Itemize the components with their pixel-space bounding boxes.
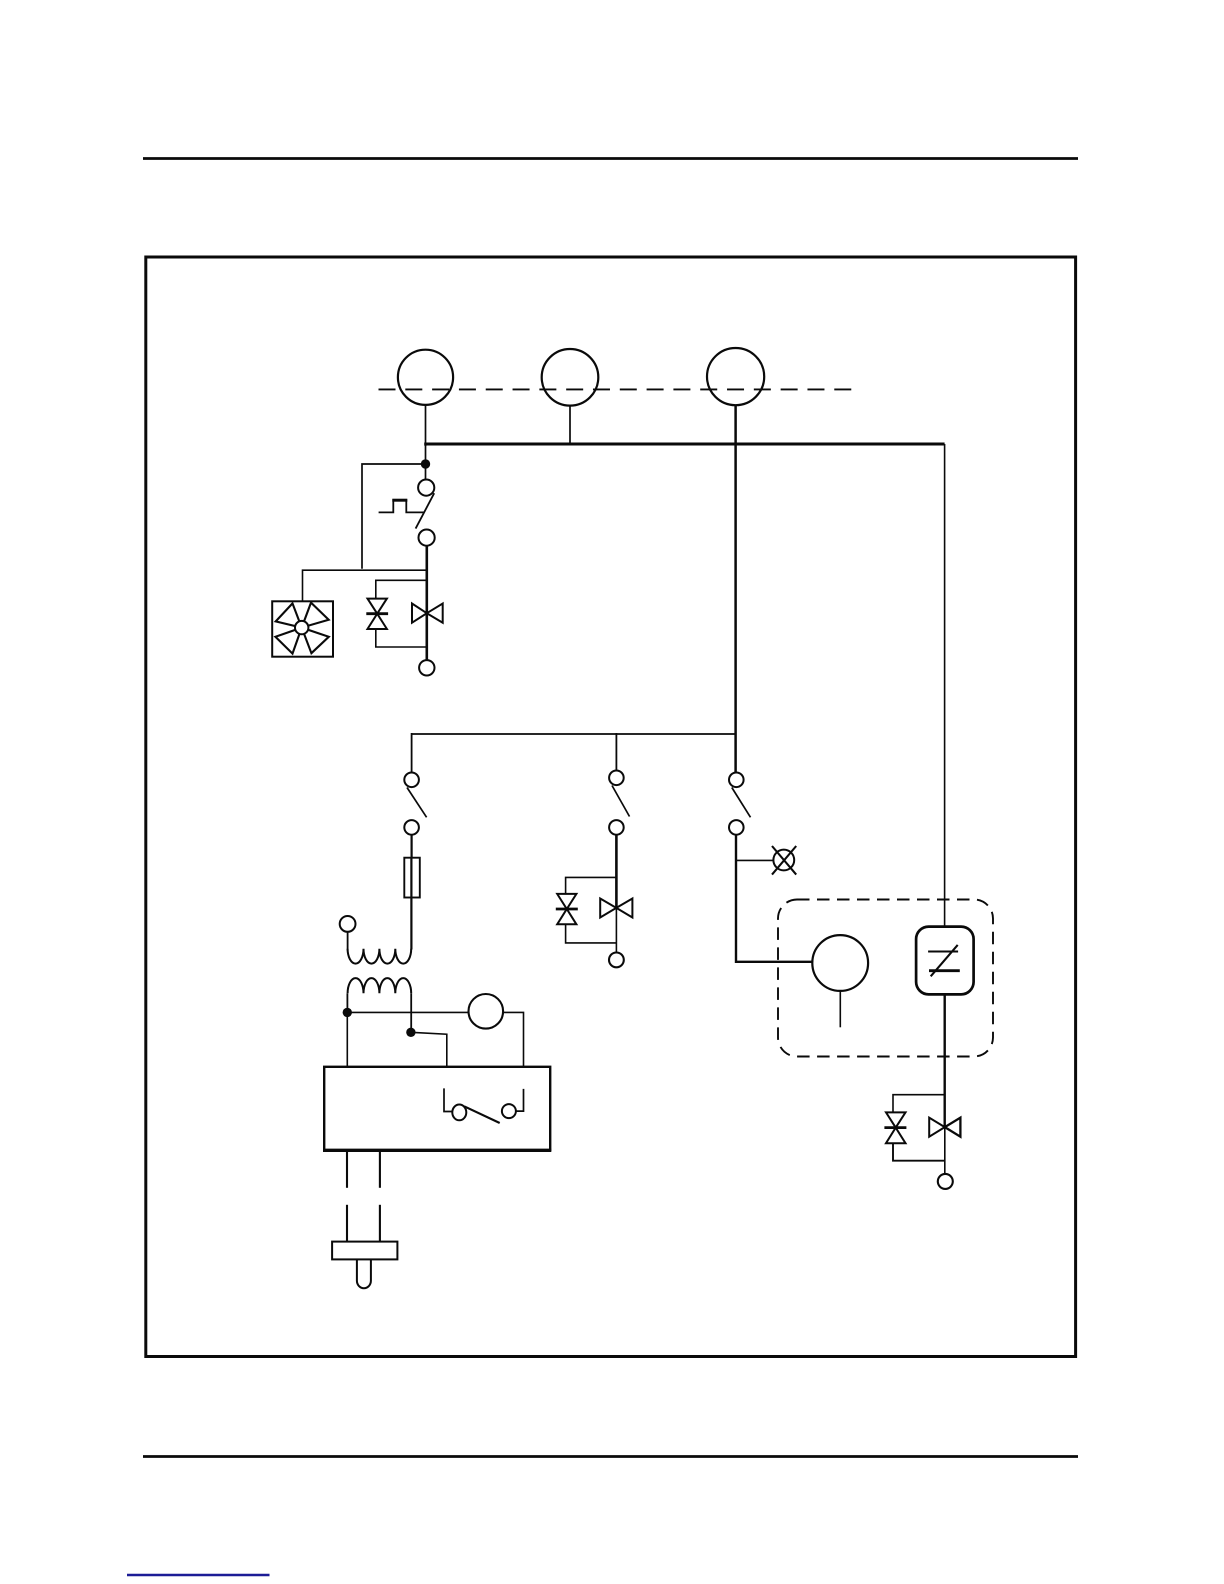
fan hub — [295, 621, 308, 634]
wire to fan — [303, 570, 427, 601]
switch S2 blade — [407, 788, 427, 818]
switch S3 top contact — [609, 771, 624, 786]
wire bypass V2 bottom — [376, 629, 427, 647]
wire left drop to relay — [346, 1012, 348, 1066]
valve V2 bottom triangle — [368, 614, 387, 629]
wire below setpoint unit — [944, 994, 946, 1127]
wire to terminal T2 — [615, 908, 617, 953]
valve V3 left triangle — [929, 1118, 945, 1137]
wire to gauge motor — [347, 1011, 468, 1013]
relay box bottom edge — [323, 1149, 551, 1152]
pulse actuator symbol — [379, 500, 424, 512]
fan blade lower-right — [302, 628, 329, 654]
setpoint symbol bottom bar — [929, 969, 960, 972]
switch S2 bottom contact — [404, 820, 419, 835]
relay contact right — [502, 1104, 516, 1118]
heater lead right upper — [379, 1150, 381, 1188]
wire S3 to valve V5 — [615, 835, 618, 908]
wire to fuse — [411, 835, 413, 858]
wire valve V1 main — [425, 546, 428, 660]
lamp M3 — [707, 348, 764, 405]
node junction dot left — [343, 1008, 352, 1017]
lamp M1 — [398, 350, 453, 405]
wire stem M1 — [425, 405, 427, 446]
setpoint unit box — [916, 927, 974, 995]
valve V2 crossbar — [366, 612, 388, 615]
switch S1 blade — [416, 493, 435, 528]
wire drop to S3 — [615, 733, 617, 770]
transformer primary terminal — [340, 916, 356, 932]
lamp M2 — [542, 349, 599, 406]
transformer primary coil — [348, 949, 412, 964]
wire bypass V4 top — [893, 1095, 945, 1113]
wire mid distribution — [412, 733, 736, 735]
fuse F1 — [404, 858, 420, 898]
valve V5 left triangle — [600, 899, 616, 918]
dashed supply line — [379, 388, 852, 390]
switch S3 bottom contact — [609, 820, 624, 835]
wire drop to setpoint unit — [944, 444, 946, 928]
relay blade — [464, 1106, 500, 1123]
controller dashed enclosure — [778, 900, 993, 1057]
switch S4 blade — [732, 788, 751, 818]
wire link to relay contact — [411, 1032, 447, 1067]
wire drop to S2 — [411, 733, 413, 773]
valve V3 right triangle — [945, 1118, 961, 1137]
relay contact left — [452, 1105, 466, 1121]
valve V1 left triangle — [412, 604, 427, 623]
wire motor to relay — [503, 1012, 523, 1066]
heater lead left upper — [346, 1150, 348, 1188]
valve V1 right triangle — [427, 604, 443, 623]
fan housing — [272, 601, 333, 656]
transformer secondary coil — [348, 978, 412, 993]
wire terminal lead — [347, 932, 349, 951]
terminal T3 — [938, 1174, 953, 1189]
wire bypass V4 bottom — [893, 1143, 945, 1161]
wire S4 to gauge — [736, 835, 812, 962]
wire stem M2 — [569, 406, 571, 445]
valve V4 bottom triangle — [886, 1128, 906, 1144]
probe sheath — [357, 1259, 371, 1288]
heater lead left lower — [346, 1205, 348, 1242]
gauge circle — [812, 935, 868, 991]
gauge tail — [839, 991, 841, 1027]
probe flange — [332, 1242, 397, 1260]
fan blade lower-left — [275, 628, 301, 654]
vent valve circle — [773, 850, 794, 871]
heater lead right lower — [379, 1205, 381, 1242]
wire secondary left lead — [346, 993, 348, 1013]
fan blade upper-left — [276, 603, 302, 627]
switch S4 top contact — [729, 773, 744, 788]
setpoint symbol diagonal — [931, 945, 958, 976]
switch S2 top contact — [404, 773, 419, 788]
vent valve cross — [772, 846, 796, 875]
node junction dot — [421, 459, 430, 468]
bottom horizontal rule — [143, 1455, 1078, 1458]
terminal T1 — [419, 660, 434, 675]
switch S1 bottom contact — [419, 530, 435, 546]
valve V5 right triangle — [616, 899, 632, 918]
wire stem M3 — [734, 405, 737, 772]
relay box — [324, 1067, 550, 1151]
schematic border frame — [146, 257, 1076, 1357]
setpoint symbol top bar — [928, 950, 958, 952]
wire tap to vent valve — [736, 859, 773, 861]
relay right bracket — [516, 1089, 524, 1111]
pulse actuator top bar — [392, 499, 407, 502]
switch S3 blade — [612, 786, 630, 817]
valve V6 top triangle — [557, 894, 576, 909]
terminal T2 — [609, 953, 624, 968]
relay left bracket — [444, 1088, 452, 1111]
wire tap to left — [362, 464, 423, 569]
footnote hyperlink rule — [127, 1574, 270, 1577]
switch S1 top contact — [418, 480, 434, 496]
wire to switch S1 — [425, 444, 427, 480]
wire bypass V2 top — [376, 580, 427, 598]
wire bypass V6 top — [566, 877, 617, 893]
valve V4 crossbar — [884, 1126, 906, 1129]
node junction dot mid — [406, 1028, 415, 1037]
motor circle — [469, 994, 504, 1029]
wire bypass V6 bottom — [566, 924, 617, 943]
valve V6 bottom triangle — [557, 909, 576, 924]
wire fuse to coil — [410, 858, 412, 950]
fan blade upper-right — [302, 603, 329, 628]
wire to terminal T3 — [944, 1127, 946, 1174]
valve V4 top triangle — [886, 1112, 906, 1127]
switch S4 bottom contact — [729, 820, 744, 835]
top horizontal rule — [143, 157, 1078, 160]
valve V6 crossbar — [556, 908, 578, 911]
wire secondary right lead — [410, 993, 412, 1033]
valve V2 top triangle — [368, 599, 387, 614]
wire bus — [424, 443, 944, 446]
